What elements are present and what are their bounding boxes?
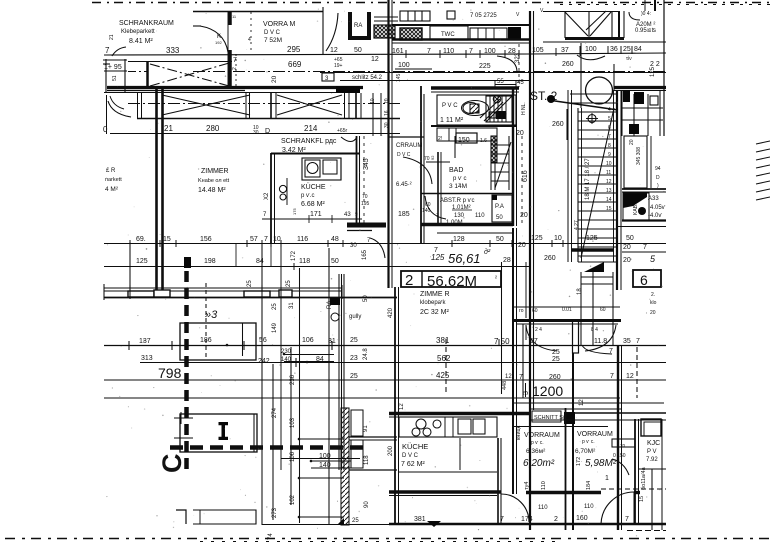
- label handwritten 56.61: [431, 248, 491, 266]
- rotated labels right wing: [502, 381, 647, 502]
- wall: stair right wall x513: [512, 89, 514, 226]
- wall: zimmer left x396: [394, 287, 396, 525]
- fan circle: [493, 95, 501, 103]
- svg-text:P V: P V: [647, 449, 657, 455]
- svg-text:14.48 M²: 14.48 M²: [198, 187, 226, 194]
- svg-text:3: 3: [523, 391, 530, 395]
- wire: top wall y11: [193, 11, 323, 13]
- svg-text:28: 28: [503, 257, 511, 264]
- svg-text:381: 381: [414, 516, 426, 523]
- wire: long horizontal y380: [104, 379, 666, 381]
- svg-text:171: 171: [310, 211, 322, 218]
- section letter C: [157, 454, 187, 474]
- stair: mid flight upper box: [486, 96, 512, 122]
- door arcs upper vorraum: [526, 325, 557, 351]
- label 616 20: [520, 102, 529, 219]
- svg-text:20: 20: [623, 257, 631, 264]
- svg-text:RA: RA: [354, 23, 362, 29]
- wall: x390 main vertical top: [387, 0, 389, 288]
- wall: crosshatch duct x374-395: [374, 25, 395, 38]
- svg-text:SCHRANKFL рдс: SCHRANKFL рдс: [281, 138, 337, 145]
- wire: dotted vertical x206: [205, 283, 207, 360]
- node: apartment tag box 2|56.62M: [401, 271, 501, 287]
- svg-text:128: 128: [453, 236, 465, 243]
- door arc schrankraum left: [112, 47, 126, 56]
- svg-text:4.05ѵ: 4.05ѵ: [650, 205, 666, 211]
- wall: thick bottom y224 mid: [421, 223, 513, 227]
- wire: kitchen inner y472: [399, 471, 497, 473]
- svg-text:H NL.: H NL.: [521, 102, 527, 115]
- wire: vorraum top y318: [512, 319, 621, 322]
- wall: kueche right x357: [356, 136, 358, 224]
- svg-text:236: 236: [290, 374, 296, 385]
- svg-text:420: 420: [388, 307, 394, 318]
- stair direction line + label: [581, 108, 614, 258]
- svg-text:р ѵ с: р ѵ с: [453, 176, 466, 182]
- verticals right wing upper: [580, 272, 582, 345]
- svg-text:6,70M²: 6,70M²: [575, 448, 596, 455]
- svg-text:25: 25: [552, 349, 560, 356]
- svg-text:1: 1: [605, 475, 609, 482]
- svg-text:50: 50: [626, 235, 634, 242]
- svg-text:V: V: [516, 12, 520, 18]
- radiator column x339-344: [338, 274, 340, 470]
- wall: x636 double lower: [634, 419, 636, 524]
- svg-text:7: 7: [264, 236, 268, 243]
- svg-text:70: 70: [620, 443, 626, 448]
- svg-text:274: 274: [272, 407, 278, 418]
- svg-text:6: 6: [640, 272, 648, 288]
- door arc kueche-vorraum: [501, 494, 529, 522]
- svg-text:25: 25: [552, 356, 560, 363]
- svg-text:р ѵ с.: р ѵ с.: [582, 439, 595, 445]
- wire: dim line y219 kueche: [262, 218, 362, 220]
- second dim row: [396, 52, 660, 82]
- svg-text:7 62 M²: 7 62 M²: [401, 461, 425, 468]
- svg-text:118: 118: [364, 455, 370, 465]
- wall: y220 right: [622, 219, 666, 221]
- svg-text:25: 25: [272, 303, 278, 310]
- svg-text:BAD: BAD: [449, 167, 463, 174]
- svg-text:ту4: ту4: [524, 482, 530, 490]
- wire: long horizontal y362: [140, 362, 666, 364]
- svg-text:10: 10: [554, 235, 562, 242]
- room label KUECHE right cut: [646, 440, 660, 463]
- door arc vorraum mid: [403, 157, 432, 184]
- svg-text:94: 94: [655, 166, 661, 172]
- svg-text:150: 150: [458, 137, 470, 144]
- room label SCHRANKRAUM 8.41: [105, 20, 180, 55]
- wall: section marker row y413: [389, 412, 530, 416]
- svg-text:295: 295: [287, 45, 301, 54]
- room label VORRAUM 6.70: [575, 431, 617, 482]
- svg-text:35: 35: [623, 338, 631, 345]
- svg-text:4 M²: 4 M²: [105, 186, 119, 193]
- svg-text:145: 145: [396, 73, 402, 82]
- svg-text:пarkett: пarkett: [105, 177, 122, 183]
- svg-text:VORRA M: VORRA M: [263, 21, 295, 28]
- svg-text:3 14M: 3 14M: [449, 183, 467, 190]
- svg-text:25: 25: [352, 518, 359, 524]
- svg-text:165: 165: [362, 249, 368, 260]
- boxes x349-397 lower band: [349, 436, 397, 438]
- svg-text:100: 100: [319, 453, 331, 460]
- kitchen counter bottom: [399, 417, 497, 437]
- svg-text:5: 5: [650, 254, 656, 264]
- wire: closet top edge: [128, 61, 232, 63]
- svg-text:7: 7: [643, 244, 647, 251]
- vertical: x130 segment: [129, 242, 131, 290]
- stair: mid flight lower: [491, 136, 511, 190]
- node: room 186 box: [180, 323, 256, 360]
- wall: x421 corridor left: [420, 86, 422, 244]
- svg-text:20: 20: [629, 139, 635, 145]
- svg-text:+65г: +65г: [337, 128, 347, 134]
- svg-text:)0 4:: )0 4:: [641, 11, 651, 17]
- svg-text:106: 106: [302, 337, 314, 344]
- svg-text:D: D: [265, 128, 270, 135]
- svg-text:2!: 2!: [438, 136, 442, 142]
- svg-text:13: 13: [606, 188, 612, 194]
- svg-text:195: 195: [361, 201, 370, 207]
- svg-text:12: 12: [399, 403, 405, 410]
- svg-text:р ѵ.с: р ѵ.с: [301, 193, 314, 199]
- svg-text:1.6: 1.6: [480, 138, 487, 144]
- svg-text:137: 137: [139, 338, 151, 345]
- svg-text:12: 12: [505, 374, 512, 380]
- svg-text:125: 125: [650, 66, 656, 77]
- wall: x563 double: [565, 408, 567, 530]
- wall: kueche left x272: [270, 153, 272, 244]
- svg-text:15: 15: [163, 236, 171, 243]
- svg-text:7 05 2725: 7 05 2725: [470, 13, 497, 19]
- svg-text:8: 8: [608, 143, 611, 149]
- wall: thick sill y38 topright: [565, 37, 624, 40]
- wall: U niche x348-371: [350, 12, 369, 38]
- dim 55 with arrow: [497, 79, 524, 86]
- section letter I box: [180, 414, 257, 452]
- svg-text:12: 12: [579, 399, 585, 406]
- wire: X brace window panel B: [277, 95, 342, 115]
- right edge hatch marks x756-770 y141-200: [756, 141, 770, 200]
- wire: heavy dashed section line horizontal y447: [170, 445, 364, 450]
- svg-text:0: 0: [103, 125, 108, 134]
- svg-text:200: 200: [388, 445, 394, 456]
- room label left cut ZIMMER: [105, 168, 122, 193]
- wall: main top thick wall y87: [107, 86, 363, 89]
- rotated dims x273/x291: [268, 407, 296, 540]
- svg-text:130: 130: [454, 213, 465, 219]
- svg-text:25: 25: [623, 46, 631, 53]
- wall: x513 double lower: [512, 228, 514, 494]
- svg-text:381: 381: [436, 336, 450, 345]
- svg-text:²: ²: [495, 276, 497, 282]
- vertical: x291 dim line: [290, 347, 292, 505]
- svg-text:100: 100: [398, 62, 410, 69]
- svg-text:140: 140: [281, 357, 292, 363]
- svg-text:7: 7: [636, 338, 640, 345]
- corner bracket lower left: [176, 510, 186, 524]
- stair: main staircase rails: [567, 90, 569, 262]
- right column: tall room: [624, 136, 647, 188]
- vertical: x186 heavy dashed section line: [184, 271, 189, 470]
- svg-text:56.62M: 56.62M: [427, 273, 477, 290]
- svg-text:84: 84: [256, 258, 264, 265]
- room label VORRAUM 7.52: [232, 21, 302, 83]
- svg-text:11.8: 11.8: [594, 338, 607, 345]
- vertical: window jambs lower: [261, 297, 263, 525]
- room: closet box white: [470, 28, 507, 39]
- svg-text:260: 260: [544, 255, 556, 262]
- labels row y338-342: [139, 337, 369, 385]
- svg-text:225: 225: [479, 63, 491, 70]
- svg-text:Kнаbe ол еtt: Kнаbe ол еtt: [198, 178, 230, 184]
- svg-text:156: 156: [200, 236, 212, 243]
- room: wc box 1.11M: [437, 95, 516, 125]
- door arc abst: [425, 196, 446, 219]
- svg-text:5,98M²: 5,98M²: [585, 458, 617, 469]
- svg-text:19+: 19+: [334, 63, 343, 69]
- wall: kitchen right x499: [497, 438, 499, 523]
- svg-text:102: 102: [290, 494, 296, 505]
- svg-text:110: 110: [443, 48, 454, 55]
- wall: right boundary x664: [663, 0, 665, 136]
- svg-text:116: 116: [297, 236, 308, 243]
- door leaf diagonal st2: [548, 100, 618, 110]
- vertical: x236 segment below dims: [235, 244, 237, 266]
- svg-text:50: 50: [363, 295, 369, 302]
- svg-text:7: 7: [610, 373, 614, 380]
- ticks near section line: [174, 412, 193, 438]
- door arc lower left: [108, 101, 131, 117]
- svg-text:106: 106: [290, 451, 296, 462]
- svg-text:242: 242: [258, 358, 270, 365]
- svg-text:14: 14: [606, 197, 612, 203]
- svg-text:57: 57: [250, 236, 258, 243]
- wall: kueche top y153: [271, 153, 359, 155]
- svg-text:118: 118: [299, 258, 310, 265]
- svg-text:125: 125: [531, 235, 543, 242]
- svg-text:7: 7: [469, 48, 473, 55]
- node: small circle w cross: [588, 115, 596, 123]
- wall: double wall x156-163: [155, 89, 158, 290]
- svg-text:56,61: 56,61: [448, 251, 481, 266]
- svg-text:-4.0ѵ: -4.0ѵ: [648, 213, 662, 219]
- svg-text:2: 2: [232, 67, 238, 70]
- svg-text:51: 51: [112, 75, 118, 81]
- wall: y87 right thick: [614, 86, 666, 89]
- label ST. 2: [530, 89, 558, 103]
- wire: y72 line: [320, 72, 666, 74]
- wall: horizontal y39: [392, 38, 530, 41]
- svg-text:7.92: 7.92: [646, 457, 658, 463]
- wall: schrankraum right wall x230: [228, 11, 232, 25]
- svg-text:11: 11: [232, 14, 237, 19]
- wire: main dim row y243: [104, 243, 666, 245]
- svg-text:KÜCHE: KÜCHE: [402, 442, 428, 451]
- svg-text:4: 4: [608, 107, 611, 113]
- svg-text:klobeрaʳk: klobeрaʳk: [420, 299, 446, 306]
- svg-text:50: 50: [331, 258, 339, 265]
- wire: bottom boundary dashed: [5, 538, 770, 540]
- svg-text:110: 110: [541, 481, 547, 490]
- svg-text:1200: 1200: [532, 383, 563, 399]
- svg-text:7: 7: [427, 48, 431, 55]
- svg-text:323: 323: [515, 52, 521, 63]
- svg-text:D: D: [656, 175, 660, 181]
- wall: window band verticals: [138, 92, 382, 136]
- svg-text:10: 10: [273, 236, 281, 243]
- svg-text:20: 20: [271, 75, 278, 83]
- svg-text:43: 43: [344, 212, 351, 218]
- svg-text:0.95≌ʦ: 0.95≌ʦ: [635, 28, 657, 34]
- right dims: [623, 235, 656, 264]
- wire: small dim lines 230/140: [284, 354, 334, 356]
- arrow 70: [426, 161, 450, 163]
- svg-text:172: 172: [576, 457, 582, 466]
- svg-text:2 2: 2 2: [650, 61, 660, 68]
- room label ZIMMER 20.32: [420, 291, 450, 316]
- labels 17 25 25: [519, 338, 640, 381]
- wall: black pier x509: [508, 27, 521, 40]
- svg-text:50: 50: [496, 215, 503, 221]
- svg-text:175: 175: [292, 208, 297, 215]
- wire: long horizontal y345: [104, 345, 666, 347]
- svg-text:192: 192: [215, 40, 222, 45]
- room label VORRAUM 6.36: [523, 432, 560, 469]
- svg-text:6.45·²: 6.45·²: [396, 182, 412, 188]
- gully circle: [331, 313, 339, 321]
- vertical: x273 dim line: [272, 364, 274, 520]
- node: black blob top of section line: [184, 257, 191, 268]
- wire: dashed vertical x637: [636, 347, 638, 398]
- wire: short horizontals lower-left column: [299, 438, 344, 440]
- wall: wc bottom y126: [431, 125, 516, 127]
- wall: stair shaft left x531 full height: [529, 11, 531, 530]
- svg-text:gully: gully: [349, 314, 361, 320]
- door arc topright small: [629, 12, 640, 20]
- svg-text:25: 25: [247, 280, 253, 287]
- toilet symbol: [462, 101, 489, 116]
- door arc schrankfl: [341, 137, 357, 142]
- room label ZIMMER 14.48: [198, 168, 230, 194]
- svg-text:15: 15: [606, 206, 612, 212]
- svg-text:7 50: 7 50: [494, 337, 510, 346]
- wall: y189 right divider: [622, 188, 666, 190]
- svg-text:313: 313: [141, 355, 153, 362]
- svg-text:214: 214: [304, 124, 318, 133]
- svg-text:125: 125: [431, 253, 445, 262]
- right door/window boxes x622-666 y90-135: [622, 90, 663, 136]
- svg-text:60: 60: [532, 308, 538, 314]
- svg-text:D V C: D V C: [402, 453, 419, 459]
- wall: central pillar between doors: [573, 320, 579, 353]
- room label 20M 0.95: [626, 11, 657, 62]
- svg-text:20: 20: [518, 242, 526, 249]
- svg-text:273: 273: [272, 507, 278, 518]
- svg-text:100: 100: [484, 48, 496, 55]
- wall: x323 jamb: [322, 7, 324, 54]
- room label ABST.R: [398, 198, 485, 226]
- svg-text:X2: X2: [264, 192, 270, 200]
- svg-text:12: 12: [371, 56, 379, 63]
- svg-text:2: 2: [405, 272, 413, 289]
- wall: wc room thick top y87 mid: [431, 86, 519, 89]
- dimension row top-mid y47-52: [392, 46, 642, 55]
- svg-text:90: 90: [364, 501, 370, 508]
- bottom dim labels: [414, 399, 629, 523]
- svg-text:333: 333: [166, 46, 180, 55]
- svg-text:го: го: [519, 308, 524, 314]
- svg-text:0.01: 0.01: [562, 307, 572, 313]
- svg-text:20: 20: [650, 310, 656, 316]
- svg-text:4: 4: [248, 37, 251, 43]
- svg-text:TWC: TWC: [441, 32, 455, 38]
- svg-text:7: 7: [105, 46, 110, 55]
- svg-text:20: 20: [623, 244, 631, 251]
- svg-text:klo: klo: [650, 300, 657, 306]
- shower diagonals: [480, 99, 500, 118]
- wire: long horizontal y397: [104, 397, 620, 399]
- wc bowl circles: [279, 185, 286, 192]
- hatch column x341-349 lower: [341, 408, 349, 525]
- svg-text:£ R: £ R: [106, 168, 116, 174]
- svg-text:P V C: P V C: [442, 103, 458, 109]
- svg-text:д²: д²: [484, 248, 491, 256]
- svg-text:D V C: D V C: [264, 30, 281, 36]
- svg-text:2.: 2.: [651, 292, 655, 298]
- svg-text:60: 60: [600, 307, 606, 313]
- wire: dashdot through band: [128, 103, 400, 105]
- svg-text:18: 18: [577, 288, 583, 295]
- door arc x325: [326, 13, 338, 51]
- room: PA closet: [492, 195, 512, 222]
- svg-text:448: 448: [502, 381, 508, 390]
- window sill band left: [104, 284, 397, 300]
- room label VORRAUM mid partial: [396, 143, 422, 188]
- svg-text:172: 172: [291, 250, 297, 261]
- node: big circle: [586, 77, 613, 104]
- room label KUECHE 6.68: [301, 183, 326, 208]
- svg-text:17: 17: [530, 338, 538, 345]
- svg-text:2C 32 M²: 2C 32 M²: [420, 309, 449, 316]
- svg-text:»3: »3: [205, 309, 218, 321]
- svg-text:110: 110: [584, 504, 594, 510]
- wall: closet top wall x147: [146, 61, 149, 89]
- svg-text:100: 100: [585, 46, 597, 53]
- svg-text:А33: А33: [648, 196, 659, 202]
- wire: band bottom y118: [137, 118, 400, 120]
- wall: hatched closet x400: [400, 28, 422, 40]
- svg-text:7: 7: [519, 374, 523, 381]
- svg-text:25: 25: [350, 373, 358, 380]
- wire: dim y54 extension right: [530, 53, 666, 54]
- svg-text:2 4: 2 4: [535, 327, 542, 333]
- svg-text:70: 70: [424, 156, 430, 162]
- svg-text:616: 616: [522, 170, 529, 182]
- svg-text:P.A: P.A: [495, 204, 504, 210]
- svg-text:15: 15: [639, 496, 645, 502]
- svg-text:25: 25: [286, 280, 292, 287]
- svg-text:24.8: 24.8: [363, 348, 369, 360]
- svg-text:кницk: кницk: [516, 425, 522, 440]
- svg-text:бо11а/4а: бо11а/4а: [641, 466, 647, 490]
- svg-text:р ѵ с.: р ѵ с.: [531, 440, 544, 446]
- svg-text:50: 50: [354, 47, 362, 54]
- labels 381 562 425: [436, 336, 512, 380]
- svg-text:8.41 M²: 8.41 M²: [129, 38, 153, 45]
- svg-text:12: 12: [330, 47, 338, 54]
